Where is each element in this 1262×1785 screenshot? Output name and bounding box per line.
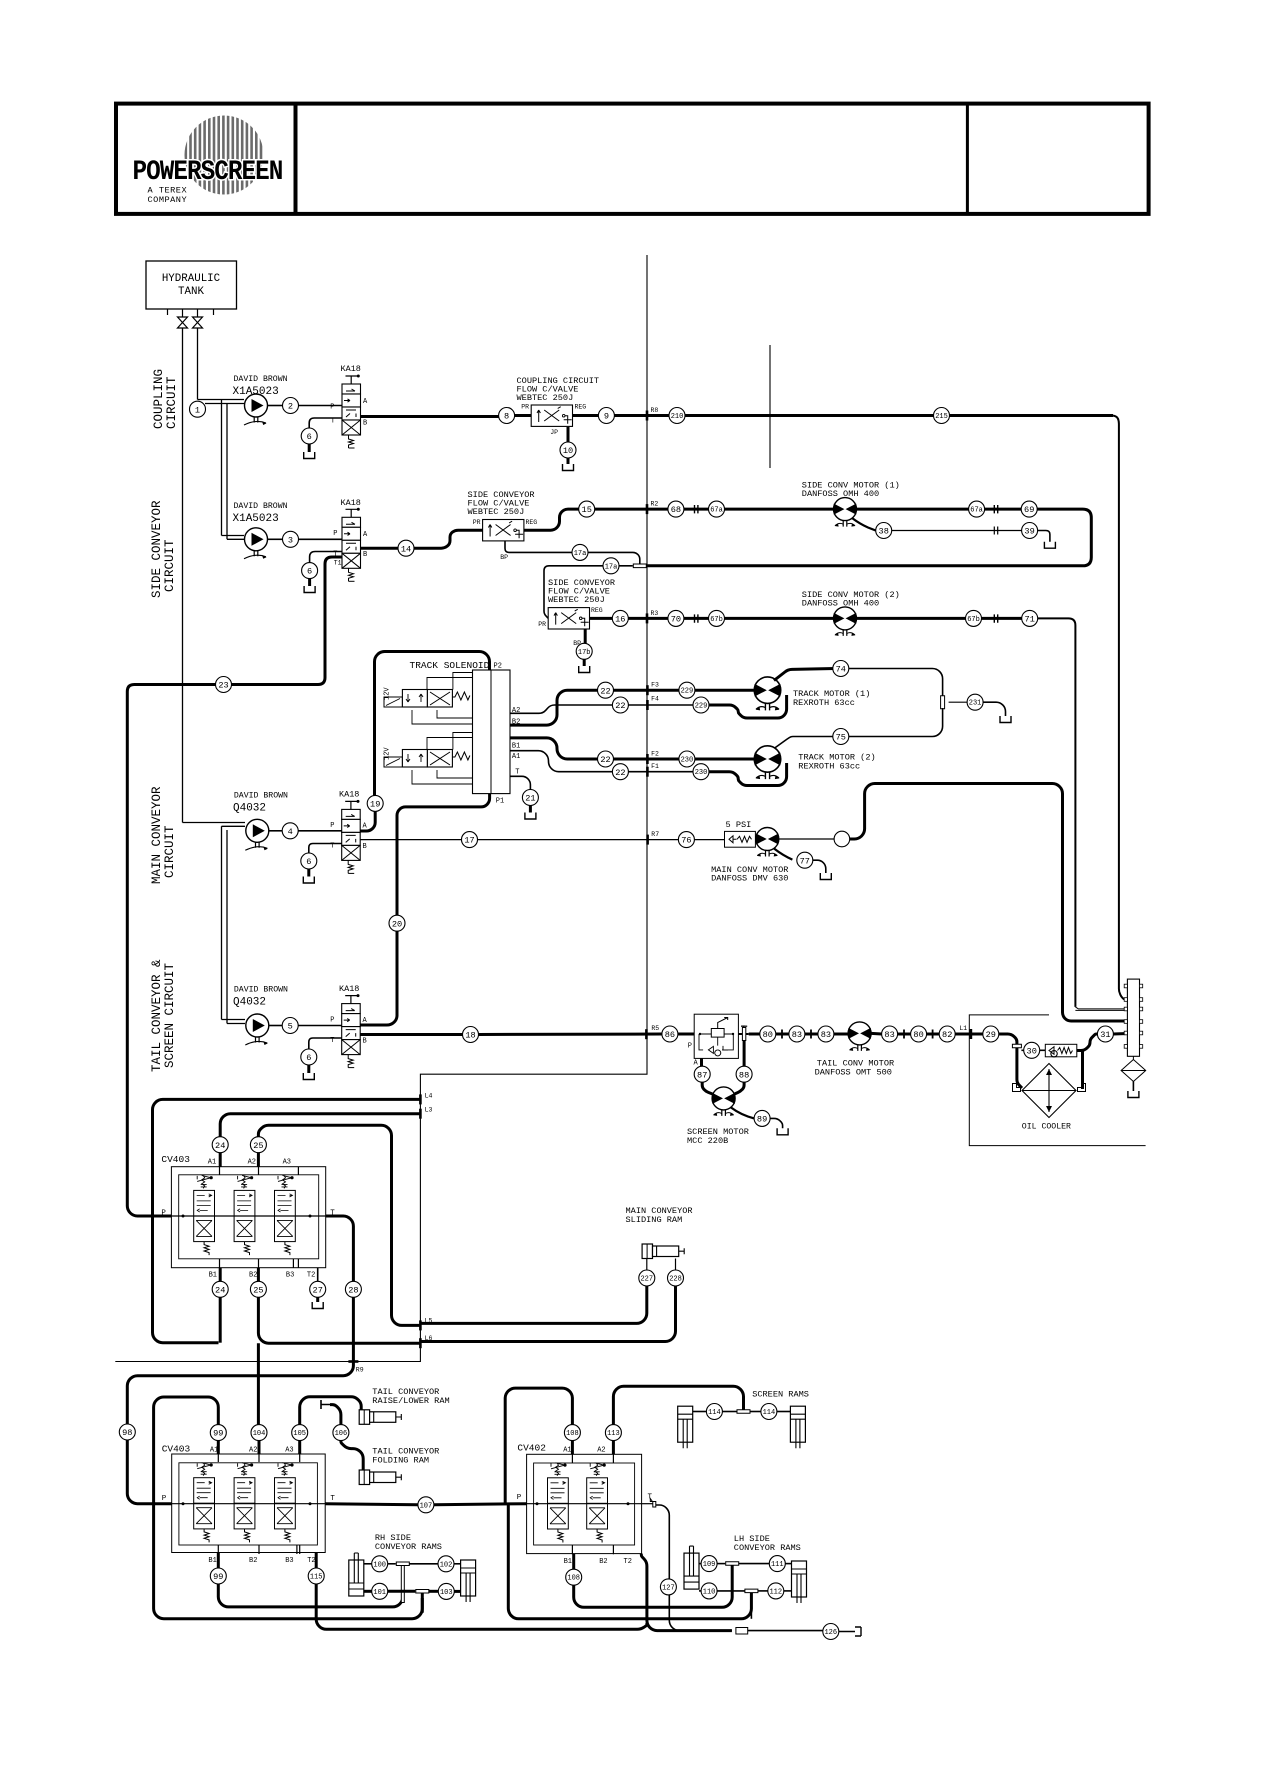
wire node 25 to CV403 port A2 bbox=[257, 1153, 260, 1167]
svg-text:P: P bbox=[330, 1017, 334, 1025]
wire motor M3 top to node 74 bbox=[774, 669, 835, 681]
svg-text:210: 210 bbox=[671, 413, 684, 421]
P-T gallery line CV403 lower bbox=[172, 1503, 326, 1505]
svg-text:21: 21 bbox=[525, 794, 535, 804]
svg-text:SCREEN RAMS: SCREEN RAMS bbox=[752, 1390, 809, 1400]
wire node 102 to RH right cylinder bbox=[454, 1563, 461, 1565]
svg-text:WEBTEC 250J: WEBTEC 250J bbox=[517, 393, 574, 403]
wire check valve to node 31 bbox=[1077, 1034, 1098, 1051]
node 106 wire with test coupling bbox=[321, 1400, 330, 1409]
suction branch to side conveyor pump bbox=[222, 536, 245, 540]
svg-text:76: 76 bbox=[681, 836, 691, 846]
node 23 bbox=[216, 677, 232, 693]
wire RH left cylinder to node 100 bbox=[364, 1563, 372, 1565]
svg-text:B1: B1 bbox=[512, 743, 520, 751]
wire node 28 through bulkhead R9 bbox=[352, 1297, 355, 1362]
node 27 bbox=[310, 1281, 326, 1297]
node 22 F3 bbox=[598, 682, 614, 698]
svg-text:COMPANY: COMPANY bbox=[148, 195, 188, 205]
wire node 114 to tee bbox=[722, 1411, 736, 1413]
svg-text:2: 2 bbox=[288, 402, 293, 412]
CV403 lower valve bank bbox=[172, 1454, 326, 1553]
node 99 upper loop wire bbox=[154, 1397, 423, 1619]
node 67a left bbox=[709, 501, 725, 517]
plain gauge circle bbox=[834, 831, 850, 847]
svg-text:215: 215 bbox=[935, 413, 948, 421]
svg-text:109: 109 bbox=[703, 1561, 716, 1569]
wire node 2 to valve V1 port P bbox=[299, 405, 343, 407]
svg-text:67a: 67a bbox=[970, 507, 983, 515]
tail conveyor raise/lower ram bbox=[359, 1410, 401, 1425]
svg-text:B2: B2 bbox=[249, 1557, 257, 1565]
T2 wire to node 27 bbox=[317, 1268, 319, 1282]
LH ram left cylinder bbox=[684, 1546, 699, 1589]
svg-text:110: 110 bbox=[703, 1588, 716, 1596]
header divider right cell bbox=[966, 104, 969, 214]
node 101 bbox=[372, 1583, 388, 1599]
wire node 231 to tank bbox=[983, 702, 1005, 716]
svg-text:19: 19 bbox=[370, 800, 380, 810]
tee fitting relief T bbox=[738, 1033, 748, 1035]
CV402 internal port stubs bbox=[572, 1454, 613, 1554]
tank drain motor M1 case bbox=[1044, 542, 1055, 549]
node 108 lower wire to LH rams tee bbox=[572, 1554, 575, 1570]
svg-text:F3: F3 bbox=[651, 682, 659, 689]
node 106 bbox=[333, 1425, 349, 1441]
node 31 bbox=[1097, 1026, 1113, 1042]
wire tee to node 231 bbox=[949, 701, 968, 703]
tee fitting track drain bbox=[941, 696, 945, 709]
wire node 17 to node 76 bbox=[478, 839, 679, 841]
bulkhead fitting R8 bbox=[646, 411, 649, 421]
node 68 bbox=[668, 501, 684, 517]
wire node 105 to CV403 lower A3 bbox=[298, 1441, 301, 1454]
wire FC3 BP to node 17b bbox=[584, 629, 587, 643]
svg-text:230: 230 bbox=[681, 757, 694, 765]
svg-text:DANFOSS OMT 500: DANFOSS OMT 500 bbox=[815, 1068, 892, 1078]
wire node 14 to flow valve FC2 bbox=[414, 530, 483, 548]
svg-text:22: 22 bbox=[615, 701, 625, 711]
svg-text:WEBTEC 250J: WEBTEC 250J bbox=[548, 595, 605, 605]
svg-text:F1: F1 bbox=[651, 763, 659, 770]
wire node 107 to CV402 port P bbox=[434, 1504, 527, 1505]
CV403 upper valve bank bbox=[171, 1167, 325, 1268]
wire pump P4 to node 5 bbox=[269, 1025, 282, 1027]
svg-text:22: 22 bbox=[600, 686, 610, 696]
L5 wire from node 25 via A2 bbox=[258, 1125, 420, 1325]
svg-text:SIDE CONVEYOR: SIDE CONVEYOR bbox=[150, 500, 164, 598]
svg-text:B: B bbox=[363, 1038, 367, 1046]
wire node 110 to tee bbox=[717, 1590, 745, 1592]
svg-text:HYDRAULIC: HYDRAULIC bbox=[162, 273, 221, 285]
node 99 lower bbox=[210, 1568, 226, 1584]
wire CV402 T2 to coupling 126 bbox=[641, 1554, 732, 1631]
node 16 bbox=[612, 610, 628, 626]
svg-text:T: T bbox=[330, 1495, 335, 1503]
CV403 upper internal port stubs bbox=[220, 1167, 299, 1268]
node 112 bbox=[768, 1583, 784, 1599]
svg-text:R2: R2 bbox=[651, 501, 659, 508]
suction branch to main conveyor pump bbox=[183, 823, 246, 827]
svg-text:230: 230 bbox=[695, 769, 708, 777]
node 24 lower bbox=[212, 1281, 228, 1297]
svg-text:114: 114 bbox=[708, 1409, 721, 1417]
tee fitting LH lower bbox=[745, 1589, 758, 1593]
wire track B1 to node 22 F2 bbox=[510, 738, 598, 759]
node 9 bbox=[598, 408, 614, 424]
solenoid valve V3 KA18 (main conveyor) bbox=[342, 800, 361, 874]
wire node 127 to coupling line bbox=[669, 1595, 732, 1631]
svg-text:A1: A1 bbox=[210, 1447, 218, 1455]
svg-text:P: P bbox=[517, 1494, 522, 1502]
bulkhead fitting R7 bbox=[646, 835, 649, 845]
svg-text:229: 229 bbox=[681, 688, 694, 696]
svg-text:25: 25 bbox=[253, 1141, 263, 1151]
wire FC1 JP to node 10 bbox=[567, 427, 570, 442]
svg-text:6: 6 bbox=[307, 567, 312, 577]
node 83 first bbox=[789, 1026, 805, 1042]
svg-text:6: 6 bbox=[306, 1053, 311, 1063]
svg-text:TAIL CONVEYOR &: TAIL CONVEYOR & bbox=[150, 959, 164, 1072]
tank drain FC3 BP bbox=[579, 660, 590, 673]
track solenoid pilot valve SV2 12V bbox=[384, 750, 470, 768]
wire valve V1 port T to node 6 bbox=[309, 418, 342, 428]
wire node 39 to tank bbox=[1038, 531, 1050, 542]
wire node 25 to L6 port bbox=[258, 1297, 420, 1343]
wire node 109 to tee bbox=[717, 1563, 725, 1565]
wire node 67a to motor M1 bbox=[725, 508, 834, 511]
wire node 113 to CV402 A2 bbox=[612, 1441, 615, 1455]
svg-text:A1: A1 bbox=[208, 1159, 216, 1167]
disconnect fitting bbox=[695, 614, 698, 622]
wire ram to node 228 bbox=[675, 1259, 677, 1271]
L5 wire to node 227 bbox=[420, 1286, 646, 1323]
pump P1 DAVID BROWN X1A5023 (coupling) bbox=[244, 394, 268, 425]
node 82 bbox=[939, 1026, 955, 1042]
wire node 89 to tank bbox=[770, 1118, 783, 1128]
svg-text:REG: REG bbox=[591, 607, 603, 614]
suction drop pipe pair lower bbox=[222, 826, 228, 1023]
B2 wire through node 25 to L6 and node 104 bbox=[257, 1268, 260, 1282]
wire node 115 to T2 junction bbox=[316, 1584, 647, 1629]
svg-text:F4: F4 bbox=[651, 696, 659, 703]
svg-text:DAVID BROWN: DAVID BROWN bbox=[234, 502, 288, 511]
shutoff valve on tank line x=182.5 bbox=[178, 317, 188, 328]
CV402 feed loop wire bbox=[505, 1388, 572, 1504]
wire ram to node 227 bbox=[646, 1259, 648, 1271]
svg-text:17b: 17b bbox=[578, 649, 591, 657]
CV402 section 2 bbox=[587, 1463, 608, 1543]
node 107 bbox=[418, 1497, 434, 1513]
svg-text:MCC 220B: MCC 220B bbox=[687, 1136, 728, 1146]
solenoid SV1 connection lines bbox=[412, 673, 473, 725]
flow control valve FC1 WEBTEC 250J (coupling) bbox=[531, 405, 572, 426]
L4 wire loop from B1 bbox=[153, 1099, 421, 1342]
svg-text:P1: P1 bbox=[496, 798, 504, 806]
svg-text:71: 71 bbox=[1025, 615, 1035, 625]
wire R9 to node 98 bbox=[127, 1362, 353, 1425]
svg-text:P2: P2 bbox=[494, 663, 502, 671]
short reference line x=770 bbox=[769, 345, 771, 468]
node 1 bbox=[190, 401, 206, 417]
track motor M4 REXROTH 63cc bbox=[754, 746, 780, 779]
CV403 upper section 3 bbox=[275, 1175, 296, 1255]
svg-text:T2: T2 bbox=[307, 1271, 315, 1279]
node 30 bbox=[1024, 1042, 1040, 1058]
svg-text:69: 69 bbox=[1024, 505, 1034, 515]
wire tee to node 114 right bbox=[750, 1411, 761, 1413]
wire CV403 upper T to node 28 bbox=[326, 1216, 354, 1281]
node 76 bbox=[678, 832, 694, 848]
header divider logo cell bbox=[294, 104, 298, 214]
tee fitting cooler inlet bbox=[1012, 1044, 1021, 1048]
svg-text:229: 229 bbox=[695, 703, 708, 711]
bulkhead fitting F1 bbox=[646, 767, 649, 777]
svg-text:JP: JP bbox=[550, 429, 558, 436]
node 28 bbox=[345, 1281, 361, 1297]
node 71 bbox=[1022, 610, 1038, 626]
wire L6 branch down to node 104 bbox=[257, 1343, 260, 1424]
node 102 bbox=[438, 1556, 454, 1572]
svg-text:111: 111 bbox=[771, 1561, 784, 1569]
node 105 wire to raise/lower ram bbox=[300, 1397, 362, 1425]
tank drain side conveyor valve bbox=[304, 579, 315, 593]
svg-text:Q4032: Q4032 bbox=[233, 997, 266, 1009]
wire node 99 to RH rams tee bbox=[218, 1572, 402, 1607]
node 114 right bbox=[761, 1404, 777, 1420]
screen ram right cylinder bbox=[790, 1406, 805, 1448]
svg-text:6: 6 bbox=[307, 432, 312, 442]
node 67a right bbox=[969, 501, 985, 517]
node 229 F4 bbox=[693, 697, 709, 713]
disconnect fitting bbox=[994, 614, 997, 622]
CV403 lower internal port stubs bbox=[218, 1454, 299, 1554]
wire node 20 to valve V4 port A bbox=[358, 931, 397, 1025]
svg-text:25: 25 bbox=[253, 1285, 263, 1295]
wire tee to flow valve FC3 PR bbox=[544, 566, 633, 619]
wire node 126 to capped end bbox=[839, 1631, 855, 1633]
svg-text:108: 108 bbox=[566, 1430, 579, 1438]
solenoid valve V2 KA18 (side conveyor) bbox=[342, 508, 361, 582]
wire node 99 to CV403 lower A1 bbox=[217, 1441, 220, 1454]
tank drain tail conveyor valve bbox=[303, 1065, 314, 1080]
powerscreen logo wordmark bbox=[133, 156, 283, 188]
wire node 22 to node 229 F4 bbox=[628, 704, 693, 706]
svg-text:L3: L3 bbox=[425, 1107, 433, 1114]
wire node 229 to track motor M3 bbox=[695, 689, 754, 692]
svg-text:B: B bbox=[363, 843, 367, 851]
tank drain coupling valve bbox=[304, 444, 315, 459]
svg-text:COUPLING: COUPLING bbox=[152, 369, 166, 429]
svg-text:87: 87 bbox=[697, 1070, 707, 1080]
svg-text:T: T bbox=[515, 769, 519, 777]
svg-text:8: 8 bbox=[504, 412, 509, 422]
wire valve V2 port B to node 14 bbox=[361, 547, 399, 550]
wire node 22 to node 229 F3 bbox=[614, 689, 679, 692]
node 17a second bbox=[603, 558, 619, 574]
node 99 lower wire to RH rams tee bbox=[217, 1553, 220, 1569]
svg-text:28: 28 bbox=[348, 1285, 358, 1295]
wire node 77 to tank bbox=[813, 860, 826, 873]
suction header to coupling pump bbox=[198, 400, 245, 404]
wire relief block A to node 87 bbox=[700, 1058, 703, 1066]
wire FC2 BP to node 17a bbox=[505, 541, 572, 552]
svg-text:PR: PR bbox=[538, 621, 546, 628]
node 115 wire to LH circuit bbox=[315, 1553, 318, 1569]
junction dots bbox=[182, 1215, 185, 1218]
wire node 80 to node 82 bbox=[927, 1033, 940, 1036]
suction line tank to main/tail pumps bbox=[182, 328, 184, 823]
svg-text:99: 99 bbox=[213, 1572, 223, 1582]
elbow fitting cooler right bbox=[1078, 1084, 1086, 1092]
svg-text:DAVID BROWN: DAVID BROWN bbox=[234, 986, 288, 995]
svg-text:24: 24 bbox=[215, 1285, 225, 1295]
wire track solenoid P2 loop to node 19 bbox=[375, 652, 490, 796]
node 88 bbox=[736, 1066, 752, 1082]
wire RH left cylinder to node 101 bbox=[364, 1590, 372, 1593]
tank drain CV403 upper T2 bbox=[312, 1297, 323, 1309]
wire node 82 to node 29 bbox=[955, 1033, 983, 1036]
svg-text:A2: A2 bbox=[249, 1447, 257, 1455]
wire node 88 to screen motor bbox=[735, 1082, 745, 1094]
wire node 17a to tee junction bbox=[588, 552, 640, 563]
svg-text:TRACK SOLENOID: TRACK SOLENOID bbox=[410, 660, 490, 671]
wire node 229 under motor M3 to right port bbox=[709, 695, 787, 718]
svg-text:5 PSI: 5 PSI bbox=[726, 820, 752, 830]
svg-text:REXROTH 63cc: REXROTH 63cc bbox=[793, 698, 855, 708]
svg-text:17a: 17a bbox=[574, 550, 587, 558]
wire node 112 to LH right cylinder bbox=[784, 1590, 792, 1592]
wire node 9 to node 210 bbox=[614, 414, 669, 417]
wire node 19 to valve V3 port A bbox=[361, 811, 376, 831]
svg-text:F2: F2 bbox=[651, 750, 659, 757]
solenoid SV2 connection lines bbox=[412, 733, 473, 785]
LH ram right cylinder bbox=[792, 1561, 807, 1603]
wire FC3 REG to node 16 bbox=[590, 617, 613, 620]
wire node 22 to node 230 F1 bbox=[628, 771, 693, 773]
tank drain FC1 JP bbox=[563, 458, 574, 471]
oil cooler bbox=[1022, 1064, 1076, 1118]
wire node 80 to node 83 bbox=[776, 1033, 789, 1036]
node 126 bbox=[823, 1624, 839, 1640]
node 3 bbox=[283, 531, 299, 547]
svg-text:107: 107 bbox=[420, 1502, 433, 1510]
svg-text:CIRCUIT: CIRCUIT bbox=[165, 376, 179, 429]
svg-text:DANFOSS DMV 630: DANFOSS DMV 630 bbox=[711, 874, 788, 884]
main conveyor sliding ram cylinder bbox=[642, 1244, 684, 1259]
wire valve V1 port B to node 8 bbox=[361, 415, 499, 418]
node 25 upper bbox=[250, 1137, 266, 1153]
check valve CV1 5 PSI bbox=[725, 831, 756, 847]
svg-text:KA18: KA18 bbox=[341, 364, 361, 374]
disconnect fitting bbox=[695, 505, 698, 513]
wire track solenoid P1 to node 20 bbox=[397, 794, 490, 916]
svg-text:14: 14 bbox=[401, 544, 411, 554]
wire node 100 to tee bbox=[388, 1563, 396, 1565]
wire tee to node 75 bbox=[849, 708, 943, 737]
wire node 210 to node 215 bbox=[685, 414, 934, 417]
node 17a first bbox=[572, 544, 588, 560]
svg-text:X1A5023: X1A5023 bbox=[233, 513, 279, 525]
svg-text:B1: B1 bbox=[564, 1558, 572, 1566]
svg-text:29: 29 bbox=[986, 1030, 996, 1040]
bulkhead fitting L4 bbox=[419, 1094, 422, 1104]
svg-text:P: P bbox=[333, 530, 337, 538]
svg-text:B2: B2 bbox=[599, 1558, 607, 1566]
svg-text:CONVEYOR RAMS: CONVEYOR RAMS bbox=[375, 1542, 442, 1552]
svg-text:CV402: CV402 bbox=[517, 1442, 546, 1453]
wire FC1 REG to node 9 bbox=[573, 414, 599, 417]
svg-text:89: 89 bbox=[757, 1115, 767, 1125]
node 6 main conveyor drain bbox=[301, 853, 317, 869]
wire node 108 to CV402 A1 bbox=[571, 1441, 574, 1455]
bulkhead fitting L1 bbox=[970, 1029, 973, 1039]
svg-text:5: 5 bbox=[288, 1022, 293, 1032]
svg-text:PR: PR bbox=[521, 404, 529, 411]
node 22 F1 bbox=[612, 764, 628, 780]
node 108 upper bbox=[564, 1425, 580, 1441]
wire node 74 to tee bbox=[849, 669, 943, 697]
bulkhead fitting L6 bbox=[419, 1338, 422, 1348]
svg-text:REG: REG bbox=[526, 519, 538, 526]
wire node 76 to check valve CV1 bbox=[694, 839, 724, 841]
suction line tank to coupling pump bbox=[197, 328, 199, 400]
P-T gallery line CV402 bbox=[527, 1503, 642, 1505]
wire node 67b to node 71 bbox=[982, 617, 1022, 620]
wire CV403 lower T to node 107 bbox=[325, 1504, 418, 1505]
svg-text:115: 115 bbox=[310, 1574, 323, 1582]
tail conveyor folding ram bbox=[359, 1470, 401, 1485]
svg-text:REG: REG bbox=[575, 404, 587, 411]
node 22 F4 bbox=[612, 697, 628, 713]
svg-text:68: 68 bbox=[671, 505, 681, 515]
return filter bbox=[1121, 1056, 1146, 1081]
wire valve V4 port T to node 6 bbox=[309, 1038, 342, 1049]
solenoid valve V1 KA18 (coupling) bbox=[342, 375, 361, 449]
wire node 15 to node 68 bbox=[595, 508, 668, 511]
svg-text:DAVID BROWN: DAVID BROWN bbox=[234, 792, 288, 801]
wire node 22 to node 230 F2 bbox=[614, 758, 679, 761]
svg-text:Q4032: Q4032 bbox=[233, 803, 266, 815]
node 19 bbox=[367, 795, 383, 811]
tank drain track solenoid T bbox=[525, 806, 536, 820]
svg-text:99: 99 bbox=[213, 1429, 223, 1439]
node 22 F2 bbox=[598, 751, 614, 767]
wire tee to node 112 bbox=[758, 1590, 768, 1592]
wire node 38 to node 39 bbox=[892, 530, 1022, 532]
svg-text:MAIN CONVEYOR: MAIN CONVEYOR bbox=[150, 786, 164, 884]
wire pump P3 to node 4 bbox=[269, 830, 282, 832]
svg-text:9: 9 bbox=[604, 412, 609, 422]
svg-text:X1A5023: X1A5023 bbox=[233, 386, 279, 398]
svg-text:A1: A1 bbox=[563, 1447, 571, 1455]
wire track A2 to node 22 F4 bbox=[510, 705, 612, 713]
node 104 bbox=[251, 1425, 267, 1441]
svg-text:A1: A1 bbox=[512, 753, 520, 761]
svg-text:P: P bbox=[161, 1210, 166, 1218]
tee fitting RH upper bbox=[396, 1562, 409, 1566]
screen motor M7 MCC 220B bbox=[712, 1087, 735, 1116]
svg-text:127: 127 bbox=[662, 1584, 675, 1592]
svg-text:100: 100 bbox=[373, 1561, 386, 1569]
svg-text:30: 30 bbox=[1027, 1046, 1037, 1056]
hydraulic motor M1 side conveyor DANFOSS OMH 400 bbox=[834, 498, 857, 527]
tank drain track motors bbox=[1000, 716, 1011, 723]
bulkhead boundary line bbox=[115, 255, 647, 1362]
tank drain return filter bbox=[1128, 1091, 1139, 1098]
svg-text:67a: 67a bbox=[710, 507, 723, 515]
capped end fitting bbox=[855, 1627, 861, 1636]
